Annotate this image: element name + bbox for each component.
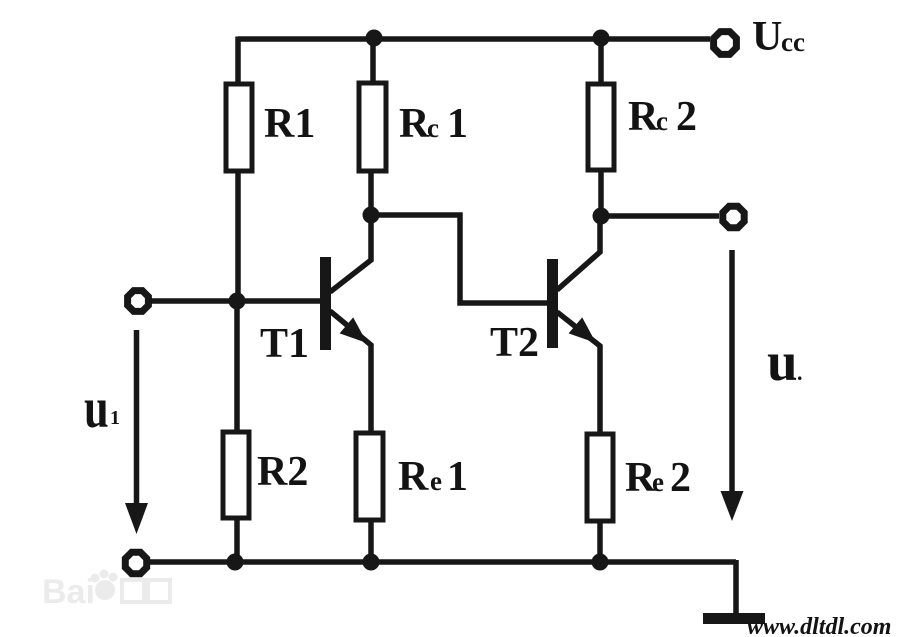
svg-text:2: 2 [676,94,697,140]
svg-text:T2: T2 [490,320,539,366]
svg-text:c: c [427,113,439,143]
svg-text:cc: cc [781,27,805,57]
svg-text:www.dltdl.com: www.dltdl.com [747,614,891,637]
svg-text:R: R [399,101,430,147]
svg-text:R1: R1 [264,101,315,147]
svg-text:u: u [84,377,109,441]
svg-text:e: e [430,466,442,496]
svg-text:.: . [797,360,803,385]
svg-text:T1: T1 [260,321,309,367]
svg-text:e: e [652,467,664,497]
svg-text:R: R [398,454,429,500]
svg-text:1: 1 [110,407,120,429]
svg-text:U: U [752,14,782,60]
svg-text:2: 2 [670,455,691,501]
svg-text:R2: R2 [257,449,308,495]
svg-text:1: 1 [447,101,468,147]
svg-text:c: c [656,106,668,136]
svg-text:Bai: Bai [42,573,95,611]
svg-text:u: u [767,331,798,392]
svg-text:1: 1 [447,454,468,500]
svg-text:R: R [628,94,659,140]
